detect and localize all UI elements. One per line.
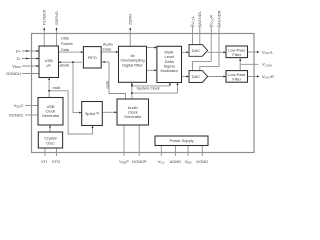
arrow VOUT R — [257, 76, 260, 78]
arrowheads — [26, 27, 259, 128]
pin labels bottom — [41, 159, 208, 165]
svg-text:VDDP: VDDP — [119, 159, 129, 165]
arrow D- mid — [26, 58, 29, 60]
arrow audio data into filter — [116, 51, 119, 53]
block DAC L — [189, 45, 208, 57]
wire: VOUT R line — [248, 76, 259, 78]
wire: VBUS line — [22, 65, 39, 67]
pin labels top (rotated) — [42, 9, 222, 25]
svg-text:mclk: mclk — [53, 86, 61, 90]
wire: modulator to DAC L — [182, 51, 188, 53]
svg-text:DGNDU: DGNDU — [6, 71, 21, 76]
tick AGNDR — [217, 25, 221, 27]
svg-text:Filter: Filter — [232, 52, 241, 57]
wire: VDD pin — [187, 146, 189, 157]
wire: DGND pin — [201, 146, 203, 157]
wire: VCOM line — [240, 63, 258, 65]
block audio clock generator — [117, 99, 149, 125]
block DAC R — [189, 71, 208, 83]
arrow SpAct into ACG — [114, 111, 117, 113]
wire: DGNDC line — [25, 114, 38, 116]
svg-text:VOUTL: VOUTL — [262, 49, 274, 55]
tick VCCL — [191, 25, 195, 27]
wire: filter to modulator L — [147, 47, 156, 49]
svg-text:VCC: VCC — [158, 159, 166, 165]
arrow mod to DAC L — [186, 51, 189, 53]
svg-text:Packet: Packet — [61, 42, 74, 46]
block texts — [42, 47, 246, 145]
wire: mclk branch to SpAct bottom — [49, 91, 92, 134]
wire: DAC R to LPF R — [208, 76, 225, 78]
svg-text:Generator: Generator — [42, 113, 60, 118]
wire: AGNDL line — [199, 26, 201, 45]
svg-text:VCCR: VCCR — [209, 15, 215, 25]
wire: DGNDU line — [22, 73, 39, 75]
svg-text:USB: USB — [61, 37, 69, 41]
block multi-level delta sigma modulator — [157, 46, 182, 82]
wire: DAC L to LPF L — [208, 51, 225, 53]
svg-text:VOUTR: VOUTR — [262, 74, 274, 80]
arrow VBUS into USB IF — [36, 65, 39, 67]
arrow system clock into modulator 1 — [169, 83, 171, 86]
wire: SSPND line — [56, 28, 58, 46]
svg-text:Generator: Generator — [124, 114, 142, 119]
block USB clock generator — [38, 98, 63, 126]
block USB I/F — [39, 46, 59, 78]
blocks — [38, 45, 248, 148]
arrow DAC R to LPF R — [223, 76, 226, 78]
block SpAct — [82, 102, 103, 126]
wire: usbclk branch down to SpAct left — [73, 62, 81, 112]
wire: system clock branch to modulator 1 — [132, 84, 170, 86]
svg-text:AGNDL: AGNDL — [197, 10, 202, 25]
wire: VCCL line — [192, 26, 194, 45]
svg-text:Filter: Filter — [232, 77, 241, 82]
wire: XTO pin — [56, 148, 58, 156]
svg-text:VDD: VDD — [185, 159, 193, 165]
svg-text:XTO: XTO — [52, 159, 60, 164]
arrow crystal into UCG — [49, 125, 51, 128]
block LPF L — [226, 46, 248, 58]
svg-text:System Clock: System Clock — [137, 87, 160, 91]
svg-text:Audio: Audio — [103, 42, 113, 46]
wire: XTI pin — [44, 148, 46, 156]
arrow SSPND up — [56, 27, 58, 30]
arrow D- into USB IF — [36, 58, 39, 60]
junction system clock 2 — [131, 92, 133, 94]
wire: modulator to DAC R — [182, 76, 188, 78]
svg-text:DAC: DAC — [192, 74, 200, 79]
svg-text:OSC: OSC — [46, 140, 55, 145]
svg-text:SSPND: SSPND — [54, 11, 59, 25]
svg-text:Data: Data — [61, 48, 70, 52]
arrow DAC L to LPF L — [223, 51, 226, 53]
junction system clock 1 — [131, 85, 133, 87]
arrow PLYBCK up — [43, 27, 45, 30]
arrow D+ mid — [26, 50, 29, 52]
wire: DGNDP pin — [138, 125, 140, 156]
wire: FIFO to ACG feedback — [101, 62, 125, 99]
svg-text:FIFO: FIFO — [88, 55, 97, 60]
signal labels — [53, 37, 160, 91]
svg-text:VCCL: VCCL — [190, 15, 196, 25]
block power supply — [155, 136, 208, 146]
arrow mclk up into USB IF — [48, 78, 50, 81]
svg-text:VCOM: VCOM — [262, 62, 272, 68]
svg-text:I/F: I/F — [46, 63, 51, 68]
svg-text:VDDC: VDDC — [14, 103, 24, 109]
svg-text:D-: D- — [17, 56, 22, 61]
wire: D- line — [22, 58, 39, 60]
junction FIFO feedback — [103, 61, 105, 63]
svg-text:D+: D+ — [16, 48, 22, 53]
wire: VDDC line — [25, 105, 38, 107]
arrow usb packet data into FIFO — [81, 51, 84, 53]
wire: VDDP pin — [123, 125, 125, 156]
svg-text:Power Supply: Power Supply — [169, 138, 193, 143]
wire: audio data line — [101, 51, 117, 53]
svg-text:Data: Data — [103, 47, 112, 51]
arrow VOUT L — [257, 51, 260, 53]
tick AGNDL — [198, 25, 202, 27]
wire: VOUT L line — [248, 51, 259, 53]
arrow filter to mod L — [154, 47, 157, 49]
wire: VCCR line with jog to DAC R — [193, 26, 212, 71]
wire: system clock branch to modulator 2 — [132, 84, 178, 93]
block crystal OSC — [38, 132, 62, 148]
svg-text:PLYBCK: PLYBCK — [42, 9, 47, 25]
arrow usbclk into USB IF — [59, 61, 62, 63]
svg-text:usbclk: usbclk — [59, 64, 70, 68]
tick VCCR — [209, 25, 213, 27]
svg-text:Digital Filter: Digital Filter — [122, 62, 143, 67]
wire: PLYBCK line — [43, 28, 45, 46]
arrow ZERO up — [129, 27, 131, 30]
wire: USB packet data line — [59, 51, 83, 53]
wire: VCC pin — [160, 146, 162, 157]
svg-text:AGNDR: AGNDR — [216, 10, 221, 25]
arrow mod to DAC R — [186, 76, 189, 78]
svg-text:DAC: DAC — [192, 48, 200, 53]
wire: AGNDR line with jog to DAC R — [200, 26, 219, 71]
wire: usbclk line — [60, 61, 82, 63]
arrow filter to mod R — [154, 69, 157, 71]
svg-text:DGND: DGND — [196, 159, 208, 164]
wire: crystal osc to UCG — [49, 127, 51, 133]
svg-text:VBUS: VBUS — [12, 63, 21, 69]
junction mclk — [48, 90, 50, 92]
wire: SpAct to ACG — [102, 111, 115, 113]
pin labels right — [262, 49, 274, 79]
junction usbclk — [72, 61, 74, 63]
outer chip boundary — [32, 34, 255, 153]
svg-text:SpAct™: SpAct™ — [85, 111, 99, 116]
arrow D+ into USB IF — [36, 50, 39, 52]
wire: D+ line — [22, 26, 259, 156]
wire: VCOM vertical between LPFs — [239, 58, 241, 71]
arrow VCOM up — [239, 59, 241, 62]
wire: mclk vertical UCG to USB I/F — [48, 79, 50, 98]
wire: system clock vertical — [131, 84, 133, 99]
arrow mclk up into SpAct bottom — [92, 126, 94, 129]
svg-text:Modulator: Modulator — [161, 68, 179, 73]
svg-text:DGNDP: DGNDP — [132, 159, 147, 164]
block 8x oversampling digital filter — [119, 46, 147, 82]
wire: filter to modulator R — [147, 69, 156, 71]
block LPF R — [226, 71, 248, 83]
svg-text:AGND: AGND — [170, 159, 182, 164]
wire: AGND pin — [174, 146, 176, 157]
svg-text:ZERO: ZERO — [128, 14, 133, 25]
wire: ZERO line — [129, 28, 131, 46]
pin labels left — [6, 48, 23, 117]
svg-text:DGNDC: DGNDC — [9, 112, 24, 117]
svg-text:mclk: mclk — [105, 81, 109, 89]
arrow system clock into filter — [131, 82, 133, 85]
arrow usbclk into SpAct — [79, 112, 82, 114]
arrow system clock into modulator 2 — [177, 83, 179, 86]
block FIFO — [83, 47, 101, 68]
svg-text:XTI: XTI — [41, 159, 47, 164]
